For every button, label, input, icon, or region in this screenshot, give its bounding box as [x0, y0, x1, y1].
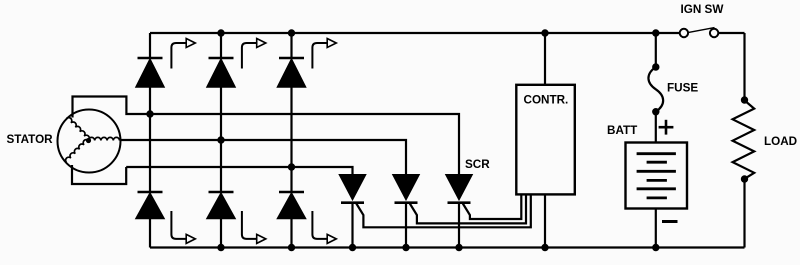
svg-text:FUSE: FUSE	[667, 82, 698, 95]
wire column 3 bottom	[290, 219, 292, 248]
wire SCR3 gate to controller	[463, 195, 522, 219]
battery plate long 2	[637, 170, 676, 173]
wire column 2 middle	[220, 87, 222, 192]
stator coil lower-left	[66, 140, 89, 163]
wire stator bottom lead	[72, 165, 126, 184]
fuse node top	[652, 63, 659, 70]
load node bottom	[741, 175, 748, 182]
diode top 3	[278, 58, 306, 87]
wire SCR1 gate to controller	[356, 195, 531, 227]
fuse node bottom	[652, 108, 659, 115]
wire column 1 bottom	[149, 219, 151, 248]
wire column 2 top	[220, 33, 222, 58]
svg-text:STATOR: STATOR	[7, 133, 54, 146]
current arrow top 3	[312, 39, 336, 69]
wire column 1 middle	[149, 87, 151, 192]
stator center node	[86, 138, 91, 143]
battery plus terminal	[659, 120, 674, 135]
junction bottom rail SCR3	[455, 244, 462, 251]
wire fuse branch from rail	[655, 33, 657, 67]
SCR 2	[393, 175, 419, 248]
junction phase B col2	[217, 136, 224, 143]
junction bottom rail SCR2	[402, 244, 409, 251]
ignition switch contact right	[710, 29, 718, 37]
load resistor R1	[733, 100, 755, 178]
diode top 2	[207, 58, 235, 87]
junction bottom rail controller	[541, 244, 548, 251]
svg-text:LOAD: LOAD	[764, 135, 797, 148]
wire controller bottom to rail	[544, 194, 546, 247]
svg-text:SCR: SCR	[465, 158, 490, 171]
junction phase A col1	[146, 110, 153, 117]
junction top rail controller	[541, 29, 548, 36]
diode top 1	[136, 58, 164, 87]
stator coil right	[89, 137, 120, 140]
load node top	[741, 96, 748, 103]
SCR 1	[340, 175, 366, 248]
wire controller top to rail	[544, 33, 546, 85]
diode bottom 3	[278, 192, 306, 219]
junction phase C col3	[288, 163, 295, 170]
fuse F1	[648, 67, 663, 112]
current arrow bottom 3	[312, 211, 336, 243]
current arrow bottom 2	[242, 211, 266, 243]
battery plate short 2	[647, 179, 667, 182]
wire battery bottom to rail	[655, 209, 657, 248]
wire top rail left of switch	[150, 32, 679, 34]
wire bottom rail	[150, 246, 745, 248]
wire phase C to SCR1 anode	[126, 167, 352, 175]
stator winding circle	[58, 110, 121, 173]
battery plate short 3	[647, 196, 667, 199]
controller box U1	[516, 85, 575, 195]
svg-text:BATT: BATT	[607, 124, 638, 137]
battery BATT box	[626, 143, 688, 209]
junction bottom rail battery	[652, 244, 659, 251]
diode bottom 2	[207, 192, 235, 219]
wire top rail right of switch	[719, 32, 745, 34]
battery plate long 3	[637, 187, 676, 190]
ignition switch blade	[689, 28, 715, 33]
wire right edge to load	[743, 33, 745, 100]
battery minus terminal	[662, 220, 678, 223]
wire phase A to SCR3 anode	[150, 114, 459, 175]
junction bottom rail SCR1	[349, 244, 356, 251]
junction bottom rail col3	[288, 244, 295, 251]
wire stator top lead	[73, 97, 151, 118]
wire column 3 middle	[290, 87, 292, 192]
junction bottom rail col2	[217, 244, 224, 251]
stator coil upper-left	[66, 118, 89, 141]
battery plate long 1	[637, 152, 676, 155]
current arrow bottom 1	[171, 211, 195, 243]
junction top rail col3	[288, 29, 295, 36]
wire fuse to battery	[655, 112, 657, 143]
diode bottom 1	[136, 192, 164, 219]
battery plate short 1	[647, 161, 667, 164]
junction top rail col2	[217, 29, 224, 36]
junction top rail fuse	[652, 29, 659, 36]
svg-text:CONTR.: CONTR.	[524, 94, 569, 107]
svg-text:IGN SW: IGN SW	[681, 3, 725, 16]
ignition switch contact left	[680, 29, 688, 37]
wire column 2 bottom	[220, 219, 222, 248]
wire column 1 top	[149, 33, 151, 58]
current arrow top 1	[171, 39, 195, 69]
wire load bottom to rail	[743, 179, 745, 248]
wire SCR2 gate to controller	[410, 195, 526, 223]
wire stator right lead phase B to SCR2 anode	[121, 140, 407, 175]
current arrow top 2	[242, 39, 266, 69]
SCR 3	[446, 175, 472, 248]
wire column 3 top	[290, 33, 292, 58]
